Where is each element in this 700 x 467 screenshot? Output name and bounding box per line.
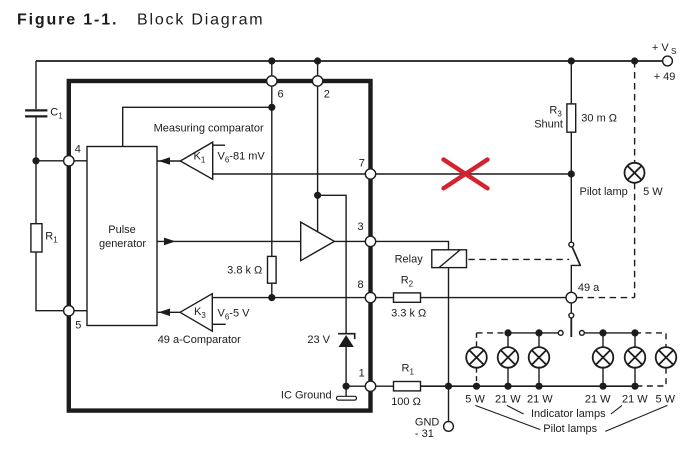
comparator K3 — [180, 294, 212, 332]
wire K1 output to pulse generator — [157, 160, 180, 162]
wire R2 to 49a — [421, 297, 567, 299]
junction dots lamp top wire — [504, 329, 511, 336]
wire K3 input / pin8 wire — [212, 297, 365, 299]
wire K1 input from pin7 — [213, 173, 366, 175]
indicator switch blade — [570, 318, 572, 337]
pulse generator box — [87, 147, 157, 326]
wire pin6 stub above IC — [271, 61, 273, 76]
svg-text:generator: generator — [99, 238, 146, 250]
junction dot pin6 top rail — [268, 57, 275, 64]
wire pin8 to R2 — [376, 297, 394, 299]
indicator lamp L6 5W — [656, 347, 677, 368]
relay coil box — [432, 250, 467, 268]
pointer line right 21W to Indicator lamps — [611, 405, 622, 414]
resistor 3.8 k — [268, 256, 277, 283]
wire pin1 to R1 — [376, 385, 394, 387]
svg-text:Measuring comparator: Measuring comparator — [154, 123, 264, 135]
wire 3.8k bottom to pin8 wire — [271, 283, 273, 297]
dashed wire pilot lamp to 49a line — [634, 183, 636, 298]
wire ground node to IC ground bar — [345, 386, 347, 396]
resistor R1 100 ohm — [394, 382, 421, 391]
svg-text:7: 7 — [359, 157, 365, 169]
svg-text:21 W: 21 W — [527, 393, 553, 405]
svg-text:4: 4 — [75, 144, 81, 156]
pin 1 — [365, 381, 375, 391]
resistor R1 (left) — [31, 224, 42, 252]
svg-text:- 31: - 31 — [415, 428, 434, 440]
indicator switch pivot circle — [569, 313, 574, 318]
svg-text:5 W: 5 W — [643, 186, 663, 198]
junction dot feedback — [268, 104, 275, 111]
indicator lamp L2 21W — [498, 347, 519, 368]
pilot lamp (top) — [625, 163, 645, 183]
arrowhead pulse generator output — [164, 238, 176, 246]
indicator lamp L5 21W — [625, 347, 646, 368]
junction dot 3.8k pin8 — [268, 294, 275, 301]
svg-text:5 W: 5 W — [465, 393, 485, 405]
pin 6 — [267, 76, 277, 86]
zener diode 23V cathode bar — [338, 334, 355, 339]
wire K3 output to pulse generator — [157, 311, 180, 313]
pin 5 — [64, 306, 74, 316]
svg-text:3.8 k Ω: 3.8 k Ω — [227, 265, 262, 277]
wire pin4 to pulse generator — [74, 160, 87, 162]
switch contact circle top — [569, 242, 574, 247]
junction dot node4 — [32, 157, 39, 164]
wire ground node to pin 1 — [346, 385, 365, 387]
svg-text:21 W: 21 W — [622, 393, 648, 405]
svg-text:49 a: 49 a — [578, 282, 600, 294]
svg-text:23 V: 23 V — [307, 334, 330, 346]
svg-text:GND: GND — [415, 417, 440, 429]
wire ground bus — [421, 385, 636, 387]
resistor R3 shunt — [567, 104, 576, 132]
svg-text:5 W: 5 W — [656, 393, 676, 405]
svg-text:Relay: Relay — [395, 253, 424, 265]
comparator K1 — [180, 142, 212, 179]
dashed pilot-lamp branch from top rail — [634, 61, 636, 163]
svg-text:8: 8 — [358, 279, 364, 291]
indicator switch left contact — [558, 331, 563, 336]
arrowhead K1 to pulse generator — [159, 157, 171, 165]
junction dot relay ground bus — [445, 383, 452, 390]
dashed top wire to left 5W lamp — [477, 332, 509, 334]
IC block border — [69, 81, 371, 411]
indicator lamp L1 5W — [466, 347, 487, 368]
arrowhead K3 to pulse generator — [159, 309, 171, 317]
dashed stubs left 5W lamp — [476, 333, 478, 347]
indicator lamp L4 21W — [593, 347, 614, 368]
wire relay bottom to ground bus — [448, 268, 450, 387]
terminal GND -31 circle — [444, 422, 454, 432]
wire R3 bottom to node — [570, 132, 572, 174]
svg-text:21 W: 21 W — [495, 393, 521, 405]
junction dots ground bus — [473, 383, 480, 390]
indicator switch right contact — [580, 331, 585, 336]
svg-text:2: 2 — [324, 89, 330, 101]
wire C1 to node4 — [35, 118, 37, 161]
wire node4 to pin 4 — [36, 160, 64, 162]
wire top supply rail — [36, 60, 663, 62]
junction dot shunt pin7 — [568, 170, 575, 177]
wire shunt branch from top rail — [570, 61, 572, 104]
junction dot op-amp input — [314, 192, 321, 199]
wire pin2 stub above IC — [317, 61, 319, 76]
svg-text:49 a-Comparator: 49 a-Comparator — [158, 334, 241, 346]
junction dot pin2 top rail — [314, 57, 321, 64]
svg-text:IC Ground: IC Ground — [281, 390, 332, 402]
pointer line 21W to Indicator lamps — [507, 405, 524, 414]
capacitor C1 — [25, 110, 47, 116]
wire K3 reference stub — [212, 323, 225, 325]
wire node down to switch contact — [570, 174, 572, 242]
svg-text:5: 5 — [75, 319, 81, 331]
wire node to op-amp top input — [317, 195, 319, 231]
svg-text:3.3 k Ω: 3.3 k Ω — [391, 308, 426, 320]
wire node to zener branch — [318, 195, 347, 333]
svg-text:Pulse: Pulse — [108, 224, 136, 236]
wire pin7 to shunt node — [376, 173, 572, 175]
terminal 49a circle — [566, 292, 577, 303]
pointer line 5W left to Pilot lamps — [475, 405, 540, 429]
svg-text:Pilot lamp: Pilot lamp — [580, 186, 628, 198]
pointer line 5W right to Pilot lamps — [605, 405, 667, 431]
svg-text:30 m Ω: 30 m Ω — [581, 112, 617, 124]
svg-text:1: 1 — [359, 368, 365, 380]
svg-text:21 W: 21 W — [585, 393, 611, 405]
wire K1 reference stub — [213, 144, 225, 146]
switch lower hook to 49a node — [571, 265, 581, 292]
svg-text:100 Ω: 100 Ω — [391, 396, 421, 408]
wire left lamp group top — [508, 332, 558, 334]
wire left rail upper — [35, 61, 37, 109]
pin 8 — [365, 292, 375, 302]
svg-text:Shunt: Shunt — [534, 119, 563, 131]
svg-text:V6-5 V: V6-5 V — [218, 308, 251, 322]
IC ground bar symbol — [337, 396, 357, 400]
wire feedback to pulse generator top — [123, 107, 272, 146]
wire pin6 internal vertical to 3.8k resistor — [271, 86, 273, 256]
wire op-amp to pin 3 — [334, 240, 365, 242]
svg-text:3: 3 — [358, 221, 364, 233]
lamp stubs 21W — [507, 333, 509, 347]
wire node4 to R1 top — [35, 161, 37, 224]
terminal +Vs circle — [663, 56, 673, 66]
dashed wire 49a to pilot lamp branch — [577, 297, 635, 299]
wire right lamp group top — [584, 332, 635, 334]
wire R1 bottom to pin5 — [36, 252, 64, 311]
wire pin5 to pulse generator — [74, 310, 87, 312]
red cross fault marker — [444, 160, 488, 189]
pin 4 — [64, 156, 74, 166]
wire pulse generator to op-amp — [157, 240, 301, 242]
wire pin2 internal vertical — [317, 86, 319, 195]
wire zener anode down to ground node — [345, 347, 347, 386]
svg-text:Figure 1-1.: Figure 1-1. — [17, 12, 118, 29]
zener diode triangle — [339, 335, 354, 347]
junction dot ground node — [343, 383, 350, 390]
junction dot shunt top rail — [568, 57, 575, 64]
op-amp output stage — [301, 222, 335, 261]
pin 7 — [365, 169, 375, 179]
dashed mechanical link relay to switch — [468, 258, 569, 260]
dashed stub right 5W lamp to bus — [635, 368, 666, 386]
svg-text:Indicator lamps: Indicator lamps — [531, 408, 606, 420]
svg-text:6: 6 — [278, 89, 284, 101]
svg-text:+ 49: + 49 — [654, 71, 676, 83]
wire pin3 to relay — [376, 241, 449, 249]
pin 2 — [312, 76, 322, 86]
indicator lamp L3 21W — [529, 347, 550, 368]
resistor R2 — [394, 293, 421, 302]
junction dot pilot branch top rail — [631, 57, 638, 64]
wire ground bus node to GND terminal — [448, 386, 450, 421]
pin 3 — [365, 236, 375, 246]
svg-text:Block Diagram: Block Diagram — [137, 12, 264, 29]
relay coil diagonal — [439, 250, 460, 268]
dashed top wire to right 5W lamp — [635, 333, 666, 347]
wire 49a down to indicator switch — [570, 303, 572, 313]
switch blade — [572, 247, 580, 265]
svg-text:Pilot lamps: Pilot lamps — [543, 423, 597, 435]
svg-text:V6-81 mV: V6-81 mV — [218, 151, 266, 165]
